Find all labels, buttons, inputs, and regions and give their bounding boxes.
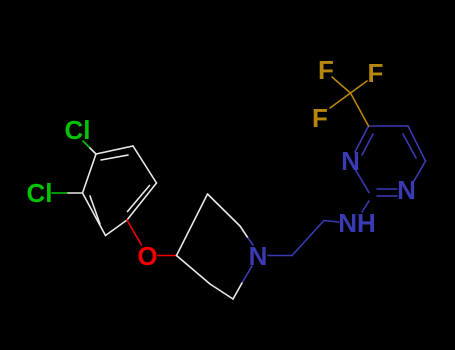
wire N1'-Ca bbox=[268, 255, 292, 257]
wire C4-C5 bbox=[96, 146, 133, 154]
wire C5-C6 bbox=[133, 146, 157, 183]
double bond inner C6-C1 bbox=[128, 186, 150, 212]
wire CF3-C4 bbox=[351, 93, 369, 126]
wire C3-C4 bbox=[83, 154, 97, 193]
wire C-F3 bbox=[330, 93, 351, 108]
ethylamine chain bbox=[268, 201, 369, 256]
CF3 group bonds bbox=[330, 77, 369, 126]
ether oxygen bonds bbox=[127, 220, 177, 256]
wire C2-N3 bbox=[355, 169, 369, 193]
wire N3-C4 double bbox=[355, 126, 369, 152]
wire C2'-N1' (half white half blue) bbox=[240, 226, 248, 238]
wire C2-C3 bbox=[83, 193, 106, 236]
svg-text:O: O bbox=[137, 241, 157, 271]
double bond inner C2=C3 bbox=[90, 196, 100, 224]
svg-text:F: F bbox=[318, 55, 334, 85]
wire C5'-C4' bbox=[177, 256, 211, 285]
wire C6'-C5' bbox=[210, 284, 233, 299]
wire C1-C2 bbox=[106, 220, 128, 236]
wire C1-O bbox=[127, 220, 142, 245]
svg-text:N: N bbox=[341, 146, 360, 176]
wire C4-C5 bbox=[369, 125, 409, 127]
svg-text:N: N bbox=[249, 241, 268, 271]
wire N1-C2 double bbox=[377, 188, 397, 190]
svg-text:F: F bbox=[368, 58, 384, 88]
chlorine Cl (4-position) bond bbox=[83, 141, 96, 154]
svg-text:Cl: Cl bbox=[27, 178, 53, 208]
wire C-F2 bbox=[351, 81, 368, 93]
wire O-C4' bbox=[158, 255, 177, 257]
svg-text:N: N bbox=[397, 175, 416, 205]
wire Cb-NH bbox=[324, 221, 339, 223]
wire NH-C2pyr bbox=[362, 201, 369, 212]
wire C6-N1 bbox=[414, 161, 426, 181]
wire C6-C1 bbox=[127, 183, 157, 220]
wire C4'-C3' bbox=[177, 194, 208, 256]
svg-text:NH: NH bbox=[338, 208, 376, 238]
piperidine ring bbox=[177, 194, 254, 299]
chlorine Cl (3-position) bond bbox=[52, 192, 83, 194]
wire C3'-C2' bbox=[208, 194, 241, 226]
double bond inner C4=C5 bbox=[101, 155, 128, 160]
wire C5-C6 double bbox=[408, 126, 426, 161]
benzene ring (3,4-dichlorophenyl) bbox=[83, 146, 157, 236]
pyrimidine ring bbox=[355, 126, 426, 196]
svg-text:F: F bbox=[312, 103, 328, 133]
atom labels bbox=[27, 55, 416, 271]
wire N1'-C6' bbox=[242, 266, 252, 283]
svg-text:Cl: Cl bbox=[65, 115, 91, 145]
wire C-F1 bbox=[332, 77, 351, 93]
wire Ca-Cb bbox=[292, 221, 324, 256]
